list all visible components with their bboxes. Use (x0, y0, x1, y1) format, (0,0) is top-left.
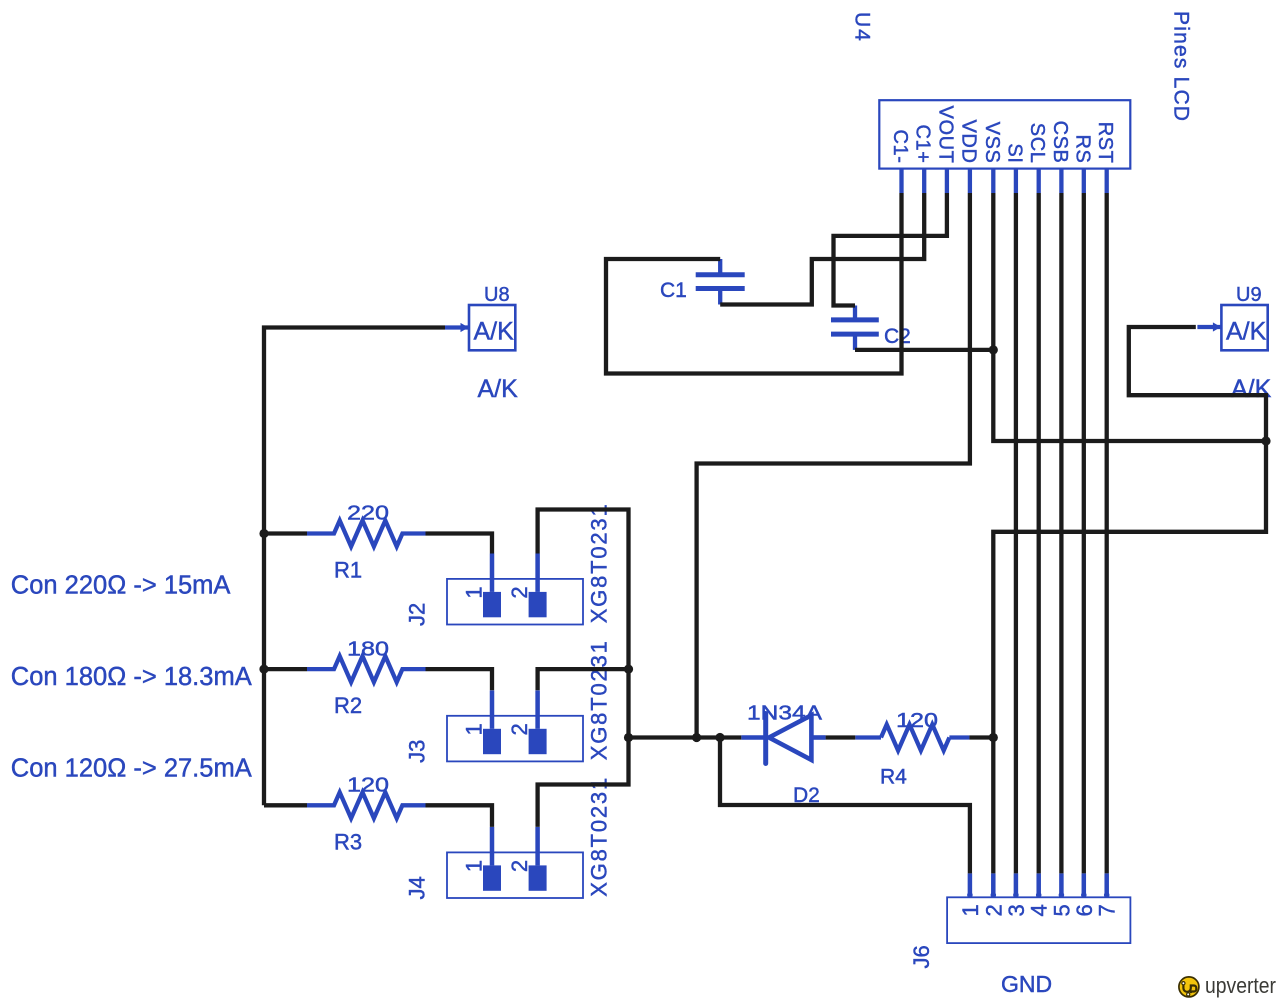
J2 pin 2 lead (535, 554, 540, 592)
svg-text:C2: C2 (884, 325, 911, 348)
resistor R4 value 120 (881, 725, 949, 751)
svg-text:2: 2 (507, 860, 532, 872)
wire diode branch to J6 pin1 (720, 738, 970, 874)
diode D2 1N34A (741, 714, 825, 764)
svg-text:C1-: C1- (889, 129, 911, 163)
J6 pin lead 1 (968, 873, 973, 897)
J2 pad 2 (529, 592, 547, 617)
svg-text:5: 5 (1049, 904, 1074, 916)
svg-text:U4: U4 (851, 12, 874, 43)
svg-text:RST: RST (1094, 122, 1116, 164)
J3 pad 2 (529, 729, 547, 754)
svg-text:2: 2 (507, 723, 532, 735)
svg-text:1N34A: 1N34A (747, 703, 823, 725)
svg-text:VOUT: VOUT (934, 106, 956, 164)
LED module U9 body (1221, 305, 1267, 350)
svg-text:upverter: upverter (1205, 973, 1276, 998)
node diode row branch junction (715, 733, 724, 742)
connector J4 XG8T0231 body (447, 852, 583, 898)
svg-text:3: 3 (1004, 904, 1029, 916)
J6 pin lead 7 (1104, 873, 1109, 897)
capacitor C2 (831, 306, 879, 350)
node J3 pin2 bus junction (624, 665, 633, 674)
U8 pin stub (445, 325, 469, 329)
svg-text:R3: R3 (334, 829, 362, 854)
svg-text:XG8T0231: XG8T0231 (587, 639, 612, 760)
resistor R1 value 220 (307, 521, 426, 547)
U4 pin stub VDD (968, 169, 972, 193)
IC U4 (LCD driver) body (879, 100, 1130, 168)
svg-text:R1: R1 (334, 558, 362, 583)
J4 pad 2 (529, 865, 547, 890)
wire C2 bottom to VSS (855, 348, 993, 352)
J6 pin lead 5 (1059, 873, 1064, 897)
U4 pin stub C1- (899, 169, 903, 193)
svg-text:R2: R2 (334, 693, 362, 718)
svg-text:J4: J4 (405, 876, 430, 899)
svg-text:1: 1 (462, 860, 487, 872)
U4 pin stub SI (1014, 169, 1018, 193)
node A R1 bus (259, 529, 268, 538)
wire SCL to J6 pin4 (1037, 193, 1041, 873)
U4 pin stub SCL (1037, 169, 1041, 193)
wire RS to J6 pin6 (1082, 193, 1086, 873)
svg-text:R4: R4 (880, 766, 907, 789)
svg-text:CSB: CSB (1049, 121, 1071, 164)
wire D2 to R4 (826, 735, 856, 739)
U8 pin arrowhead (461, 323, 469, 332)
connector J2 XG8T0231 body (447, 579, 583, 625)
svg-text:VDD: VDD (957, 119, 979, 163)
svg-text:1: 1 (958, 904, 983, 916)
wire bus to R3 (264, 803, 307, 807)
svg-text:2: 2 (981, 904, 1006, 916)
node A R2 bus (259, 665, 268, 674)
svg-text:Con 220Ω -> 15mA: Con 220Ω -> 15mA (11, 572, 231, 600)
svg-text:Pines LCD: Pines LCD (1170, 11, 1193, 122)
J3 pad 1 (483, 729, 501, 754)
U4 pin stub RS (1082, 169, 1086, 193)
node R4-VSS junction (989, 733, 998, 742)
wire CSB to J6 pin5 (1059, 193, 1063, 873)
J3 pin 1 lead (490, 690, 495, 728)
svg-text:J3: J3 (405, 740, 430, 763)
upverter logo icon (1179, 977, 1199, 997)
svg-text:Con 180Ω -> 18.3mA: Con 180Ω -> 18.3mA (11, 663, 252, 691)
svg-text:C1: C1 (660, 279, 687, 302)
wire U8 pin to left bus (264, 328, 445, 806)
node VDD-diode row junction (692, 733, 701, 742)
svg-text:Con 120Ω -> 27.5mA: Con 120Ω -> 27.5mA (11, 754, 252, 782)
wire SI to J6 pin3 (1014, 193, 1018, 873)
svg-text:180: 180 (347, 638, 389, 660)
U9 pin arrowhead (1213, 322, 1221, 331)
wire bus to R1 (264, 531, 307, 535)
wire VOUT pin to C2 top (834, 193, 947, 306)
U4 pin stub C1+ (922, 169, 926, 193)
node C2-VSS junction (989, 345, 998, 354)
wire J2/J4 pin2 bus (538, 510, 629, 827)
J2 pin 1 lead (490, 554, 495, 592)
svg-text:J2: J2 (405, 603, 430, 626)
svg-text:C1+: C1+ (912, 124, 934, 163)
resistor R2 value 180 (307, 656, 426, 682)
wire R1 to J2 pin1 (426, 534, 493, 554)
U4 pin stub CSB (1059, 169, 1063, 193)
svg-text:XG8T0231: XG8T0231 (587, 776, 612, 897)
svg-text:4: 4 (1027, 904, 1052, 916)
svg-text:SCL: SCL (1026, 123, 1048, 164)
J4 pin 1 lead (490, 827, 495, 865)
svg-text:120: 120 (347, 775, 389, 797)
J3 pin 2 lead (535, 690, 540, 728)
wire RST to J6 pin7 (1105, 193, 1109, 873)
wire R2 to J3 pin1 (426, 669, 493, 690)
wire bus to D2 cathode (629, 735, 742, 739)
J6 pin lead 4 (1036, 873, 1041, 897)
connector J6 body (947, 897, 1130, 943)
LED module U8 body (469, 305, 515, 350)
U4 pin stub VSS (991, 169, 995, 193)
wire C1+ pin to C1 bottom (720, 193, 924, 305)
J6 pin lead 3 (1014, 873, 1019, 897)
U9 pin stub (1197, 325, 1221, 329)
svg-text:RS: RS (1071, 135, 1093, 164)
J6 pin lead 2 (991, 873, 996, 897)
J4 pin 2 lead (535, 827, 540, 865)
wire C1- pin to C1 top loop (606, 193, 902, 374)
connector J3 XG8T0231 body (447, 716, 583, 762)
capacitor C1 (696, 259, 745, 305)
svg-text:120: 120 (896, 710, 938, 732)
wire R4 to VSS net (969, 735, 993, 739)
wire U9 pin to VSS net (1129, 327, 1266, 441)
svg-text:J6: J6 (909, 945, 934, 968)
J4 pad 1 (483, 865, 501, 890)
svg-text:220: 220 (347, 503, 389, 525)
svg-text:1: 1 (462, 586, 487, 598)
svg-text:6: 6 (1072, 904, 1097, 916)
svg-text:GND: GND (1001, 971, 1052, 997)
svg-text:A/K: A/K (478, 375, 519, 403)
wire J3 pin2 to bus (538, 669, 629, 690)
resistor R3 value 120 (307, 792, 426, 818)
U4 pin stub RST (1105, 169, 1109, 193)
svg-text:1: 1 (462, 723, 487, 735)
svg-text:SI: SI (1003, 143, 1025, 163)
svg-text:2: 2 (507, 586, 532, 598)
wire bus to R2 (264, 667, 307, 671)
wire R3 to J4 pin1 (426, 805, 493, 827)
node bus-diode row junction (624, 733, 633, 742)
svg-text:A/K: A/K (1226, 318, 1267, 346)
svg-text:XG8T0231: XG8T0231 (587, 502, 612, 623)
svg-text:U8: U8 (484, 284, 510, 306)
svg-text:U9: U9 (1236, 284, 1262, 306)
svg-text:VSS: VSS (981, 122, 1003, 164)
U4 pin stub VOUT (945, 169, 949, 193)
svg-text:A/K: A/K (474, 318, 515, 346)
J2 pad 1 (483, 592, 501, 617)
wire VDD pin to diode row (697, 193, 970, 738)
svg-text:7: 7 (1095, 904, 1120, 916)
J6 pin lead 6 (1082, 873, 1087, 897)
node U9-VSS junction (1261, 436, 1270, 445)
wire VSS pin jog to J6 pin2 (993, 193, 1266, 873)
